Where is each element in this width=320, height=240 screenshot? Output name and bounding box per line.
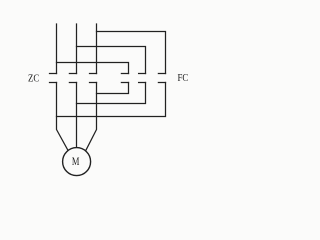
svg-text:FC: FC — [178, 72, 189, 84]
wire phase line L1 (left vertical into ZC contact 1) — [56, 24, 58, 74]
contactor main contact FC pole 2 — [139, 74, 146, 83]
contactor main contact FC pole 3 — [158, 74, 165, 83]
svg-text:ZC: ZC — [28, 73, 40, 85]
wire FC pole 2 output cross-connect to phase-2 node (y=103.7) — [77, 83, 146, 104]
contactor main contact FC pole 1 — [121, 74, 128, 83]
wire FC pole 3 output cross-connect to phase-1 node (y=116.5) — [57, 83, 166, 117]
wire branch L1 to FC contact 1 (horizontal y=62, down at x=128) — [57, 63, 129, 74]
contactor main contact ZC pole 3 — [90, 74, 97, 83]
wire ZC pole 1 output down to motor lead U (with diagonal) — [57, 83, 71, 155]
wire branch L2 to FC contact 2 (horizontal y=46.8, down at x=145.6) — [77, 47, 146, 74]
contactor main contact ZC pole 2 — [69, 74, 76, 83]
motor M (3-phase motor circle) — [63, 148, 91, 176]
wire branch L3 to FC contact 3 (horizontal y=31, down at x=165.2) — [97, 32, 166, 74]
wire phase line L2 (middle vertical into ZC contact 2) — [76, 24, 78, 74]
wire phase line L3 (right vertical into ZC contact 3) — [96, 24, 98, 74]
wire FC pole 1 output cross-connect to phase-3 node (y=93.5) — [97, 83, 129, 94]
svg-text:M: M — [72, 156, 80, 168]
contactor main contact ZC pole 1 — [50, 74, 57, 83]
wire ZC pole 3 output down to motor lead W (with diagonal) — [84, 83, 97, 155]
wire ZC pole 2 output down to motor lead V — [76, 83, 78, 151]
